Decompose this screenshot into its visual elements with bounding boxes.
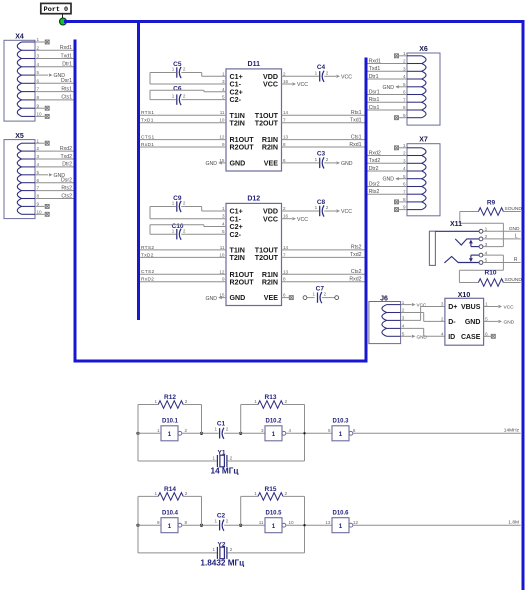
svg-text:13: 13 [283, 135, 289, 140]
wire RTS1 (bus to D11) [140, 114, 226, 116]
svg-text:6: 6 [353, 428, 356, 433]
node junction D2 (R15/Y2 tap) [303, 524, 305, 526]
svg-text:9: 9 [37, 202, 40, 207]
node junction C2n [239, 524, 242, 527]
svg-text:RxD1: RxD1 [141, 142, 154, 148]
svg-text:4: 4 [37, 162, 40, 167]
svg-text:C3: C3 [317, 151, 326, 158]
svg-text:4: 4 [441, 331, 444, 336]
connector X10 body [441, 292, 488, 345]
svg-text:1: 1 [172, 94, 175, 99]
ground GND arrow (D12 pin 15) [205, 296, 226, 302]
node junction C1n [239, 432, 242, 435]
wire X6 pin 3 net Txd1 [368, 70, 408, 72]
svg-text:2: 2 [183, 94, 186, 99]
svg-text:2: 2 [402, 308, 405, 313]
svg-text:1: 1 [315, 205, 318, 210]
wire X4 pin 6 net Dsr1 [35, 82, 74, 84]
svg-text:R15: R15 [265, 486, 277, 493]
svg-text:16: 16 [283, 214, 289, 219]
svg-text:GND: GND [54, 73, 66, 79]
svg-text:GND: GND [230, 294, 246, 302]
capacitor C1 [215, 420, 229, 439]
svg-text:13: 13 [283, 269, 289, 274]
svg-text:5: 5 [403, 174, 406, 179]
svg-text:2: 2 [403, 151, 406, 156]
wire X5 pin 6 net Dsr2 [35, 182, 74, 184]
wire X4 pin 4 net Dtr1 [35, 66, 74, 68]
svg-text:2: 2 [226, 427, 229, 432]
wire osc2 node A to D10.4 input [137, 524, 161, 526]
wire RxD2 (bus to D12) [140, 281, 226, 283]
bus wire: top horizontal [64, 20, 523, 23]
svg-text:3: 3 [403, 158, 406, 163]
svg-text:7: 7 [37, 87, 40, 92]
wire RTS2 (bus to D12) [140, 249, 226, 251]
svg-text:C4: C4 [317, 64, 326, 71]
svg-text:2: 2 [441, 316, 444, 321]
X11 pin circles [479, 229, 483, 264]
wire X10 VBUS to VCC [484, 306, 498, 308]
svg-text:1: 1 [485, 302, 488, 307]
svg-text:CTS1: CTS1 [141, 135, 154, 141]
no-connect X6 pin 9 [395, 116, 408, 120]
svg-text:GND: GND [205, 161, 217, 167]
wire X10 GND pin [484, 320, 498, 322]
wire TxD2 (bus to D12) [140, 256, 226, 258]
wire D11 VDD to C4 [282, 75, 320, 77]
crystal Y2 [138, 525, 305, 559]
X11 tip contact (L) [455, 239, 479, 245]
X11 sleeve wire to pin 1 [435, 230, 479, 232]
wire X6 pin 4 net Dtr1 [368, 78, 408, 80]
svg-text:C1: C1 [217, 420, 226, 427]
wire J6 pin 3 to X10 D+ [401, 307, 445, 321]
no-connect X5 pin 1 [35, 141, 49, 145]
svg-text:1: 1 [168, 431, 172, 438]
wire TxD1 (bus to D11) [140, 122, 226, 124]
wire C6 to D11 C2+ (pin 4) [150, 90, 226, 99]
svg-text:1: 1 [172, 67, 175, 72]
wire Cts1 (D11 to middle bus) [282, 139, 365, 141]
wire Rxd1 (D11 to middle bus) [282, 146, 365, 148]
X11 tip switch arrow (pin 3) [469, 240, 479, 247]
svg-text:C2-: C2- [230, 96, 242, 104]
svg-text:D11: D11 [248, 61, 261, 68]
svg-text:8: 8 [403, 197, 406, 202]
wire X7 pin 3 net Txd2 [368, 162, 408, 164]
wire X6 pin 8 net Cts1 [368, 109, 408, 111]
svg-text:12: 12 [353, 520, 359, 525]
ground GND arrow (X10) [498, 320, 514, 326]
svg-text:5: 5 [37, 170, 40, 175]
svg-text:GND: GND [382, 85, 394, 91]
wire X4 pin 3 net Txd1 [35, 58, 74, 60]
wire C5 to D11 C1+ (pin 1) [181, 73, 226, 77]
svg-text:16: 16 [283, 79, 289, 84]
connector X4 [4, 34, 42, 122]
wire X5 pin 7 net Rts2 [35, 190, 74, 192]
svg-text:ID: ID [448, 334, 455, 341]
no-connect X7 pin 9 [395, 208, 408, 212]
svg-text:2: 2 [37, 45, 40, 50]
svg-text:Rts1: Rts1 [61, 86, 72, 92]
wire X4 pin 5 to GND [35, 74, 48, 76]
svg-text:C1-: C1- [230, 215, 242, 223]
inverter D10.4 [157, 511, 188, 533]
ground GND arrow (D11 pin 15) [205, 161, 226, 167]
svg-text:12: 12 [219, 269, 225, 274]
svg-text:1: 1 [168, 523, 172, 530]
svg-text:2: 2 [230, 547, 233, 552]
wire C1 to D10.2 input [224, 432, 265, 434]
svg-text:6: 6 [403, 90, 406, 95]
wire Rxd2 (D12 to middle bus) [282, 281, 365, 283]
crystal Y1 [138, 433, 305, 467]
wire X6 pin 2 net Rxd1 [368, 63, 408, 65]
svg-text:VCC: VCC [504, 305, 515, 311]
svg-text:7: 7 [403, 189, 406, 194]
svg-text:9: 9 [403, 113, 406, 118]
svg-text:C2-: C2- [230, 231, 242, 239]
svg-text:1: 1 [272, 431, 276, 438]
op-amp/IC D11 body [219, 61, 288, 171]
svg-text:3: 3 [37, 54, 40, 59]
wire D11 VEE to C3 [282, 162, 320, 164]
svg-text:Cts2: Cts2 [61, 193, 72, 199]
svg-text:T2IN: T2IN [230, 254, 245, 262]
svg-text:1: 1 [157, 428, 160, 433]
wire X4 pin 2 net Rxd1 [35, 49, 74, 51]
svg-text:VBUS: VBUS [461, 304, 481, 311]
svg-text:10: 10 [219, 118, 225, 123]
svg-text:9: 9 [157, 520, 160, 525]
svg-text:1: 1 [312, 292, 315, 297]
node junction B2 [200, 524, 203, 527]
svg-text:VCC: VCC [341, 75, 352, 81]
svg-text:GND: GND [54, 173, 66, 179]
svg-text:6: 6 [283, 293, 286, 298]
power VCC arrow (C8) [324, 209, 352, 215]
capacitor C8 [315, 199, 329, 217]
no-connect X7 pin 8 [395, 200, 408, 204]
ground GND arrow (X4 pin 5) [49, 73, 65, 79]
wire Txd1 (D11 to middle bus) [282, 122, 365, 124]
svg-text:X5: X5 [15, 133, 24, 140]
no-connect X4 pin 10 [35, 114, 49, 118]
svg-text:7: 7 [283, 118, 286, 123]
svg-text:4: 4 [289, 428, 292, 433]
svg-text:6: 6 [403, 182, 406, 187]
no-connect X5 pin 9 [35, 204, 49, 208]
svg-text:11: 11 [220, 245, 225, 250]
svg-text:1: 1 [212, 455, 215, 460]
capacitor C2 [215, 512, 229, 531]
svg-text:1: 1 [403, 143, 406, 148]
svg-text:2: 2 [326, 157, 329, 162]
wire C9 to D12 C1+ (pin 1) [181, 207, 226, 212]
svg-text:CASE: CASE [461, 334, 481, 341]
svg-text:Cts1: Cts1 [369, 105, 380, 111]
svg-text:1: 1 [403, 51, 406, 56]
X11 ring switch arrow (pin 4) [469, 255, 479, 262]
wire X6 pin 6 net Dsr1 [368, 94, 408, 96]
svg-text:D-: D- [448, 319, 456, 326]
svg-text:14: 14 [283, 245, 289, 250]
svg-text:5: 5 [402, 332, 405, 337]
svg-text:1: 1 [212, 547, 215, 552]
no-connect X7 pin 1 [395, 146, 408, 150]
svg-text:Txd1: Txd1 [350, 118, 362, 124]
capacitor C4 [315, 64, 329, 82]
svg-text:10: 10 [219, 252, 225, 257]
svg-text:14 МГц: 14 МГц [211, 467, 239, 476]
resistor R13 [241, 394, 305, 461]
svg-text:1: 1 [339, 431, 343, 438]
no-connect D12 VEE pin 6 [282, 296, 294, 300]
svg-text:Rxd1: Rxd1 [60, 45, 72, 51]
bus wire: inner-left vertical [137, 22, 140, 321]
svg-text:SOUND: SOUND [505, 206, 523, 212]
svg-text:D12: D12 [247, 195, 260, 202]
ground GND arrow (J6 pin 5) [412, 334, 427, 339]
svg-text:R10: R10 [485, 270, 497, 277]
wire C5 to D11 C1- (pin 3) [150, 73, 226, 85]
svg-text:C1-: C1- [230, 81, 242, 89]
svg-text:GND: GND [509, 226, 520, 232]
bus wire: bottom horizontal [74, 360, 367, 363]
wire X7 pin 4 net Dtr2 [368, 170, 408, 172]
svg-text:1: 1 [254, 399, 257, 404]
svg-text:1: 1 [222, 71, 225, 76]
svg-text:5: 5 [222, 95, 225, 100]
svg-text:Port 0: Port 0 [44, 6, 68, 14]
svg-text:13: 13 [325, 520, 331, 525]
svg-text:1.8432 МГц: 1.8432 МГц [200, 559, 244, 568]
svg-text:7: 7 [283, 252, 286, 257]
svg-text:X7: X7 [419, 137, 428, 144]
wire C10 to D12 C2+ (pin 4) [150, 225, 226, 235]
svg-text:8: 8 [37, 95, 40, 100]
svg-text:D10.6: D10.6 [332, 511, 349, 517]
svg-text:2: 2 [183, 67, 186, 72]
svg-text:8: 8 [283, 142, 286, 147]
svg-text:1: 1 [37, 138, 40, 143]
svg-text:2: 2 [230, 455, 233, 460]
wire C10 to D12 C2- (pin 5) [181, 233, 226, 235]
bus wire: middle vertical [365, 58, 368, 363]
svg-text:2: 2 [285, 399, 288, 404]
no-connect X6 pin 1 [395, 54, 408, 58]
power VCC arrow (J6 pin 1) [412, 303, 427, 308]
wire J6 pin 1 to VCC [401, 304, 412, 306]
svg-text:3: 3 [402, 316, 405, 321]
svg-text:TxD2: TxD2 [141, 252, 154, 258]
svg-text:R13: R13 [265, 394, 277, 401]
no-connect X10 CASE pin 6 [484, 334, 496, 338]
svg-text:6: 6 [37, 178, 40, 183]
svg-text:Cts1: Cts1 [351, 134, 362, 140]
svg-text:3: 3 [441, 302, 444, 307]
svg-text:T2OUT: T2OUT [255, 119, 279, 127]
node junction B1 [200, 432, 203, 435]
svg-text:T2OUT: T2OUT [255, 254, 279, 262]
svg-text:4: 4 [403, 74, 406, 79]
ground GND arrow (X7 pin 5) [382, 177, 407, 183]
op-amp/IC D12 body [219, 195, 288, 305]
X11 pin numbers [485, 227, 488, 264]
svg-text:4: 4 [403, 166, 406, 171]
connector J6 [369, 295, 405, 343]
inverter D10.3 [328, 419, 356, 441]
svg-text:Rxd2: Rxd2 [60, 146, 72, 152]
svg-text:D10.3: D10.3 [332, 419, 349, 425]
svg-text:2: 2 [183, 201, 186, 206]
svg-text:1: 1 [37, 37, 40, 42]
svg-text:RTS2: RTS2 [141, 245, 154, 251]
svg-text:14: 14 [283, 110, 289, 115]
svg-text:L: L [515, 233, 518, 239]
resistor R9 [460, 200, 521, 216]
svg-text:VCC: VCC [297, 217, 308, 223]
resistor R15 [241, 486, 305, 553]
svg-text:R2OUT: R2OUT [230, 144, 255, 152]
resistor R10 [478, 270, 520, 287]
svg-text:Dtr2: Dtr2 [62, 162, 72, 168]
svg-text:GND: GND [465, 319, 481, 326]
svg-text:Rts1: Rts1 [351, 110, 362, 116]
power VCC arrow (D11 pin 16) [282, 82, 309, 88]
wire X7 pin 7 net Rts2 [368, 193, 408, 195]
inverter D10.5 [259, 511, 294, 533]
svg-text:4: 4 [222, 87, 225, 92]
svg-text:1: 1 [215, 427, 218, 432]
svg-text:VCC: VCC [263, 81, 278, 89]
wire X11 pin 2 to bus (L) [483, 238, 521, 240]
no-connect X5 pin 10 [35, 212, 49, 216]
svg-text:1: 1 [172, 228, 175, 233]
svg-text:2: 2 [185, 428, 188, 433]
svg-text:Rts2: Rts2 [369, 189, 380, 195]
svg-text:RxD2: RxD2 [141, 277, 154, 283]
svg-text:8: 8 [403, 105, 406, 110]
svg-text:Txd2: Txd2 [369, 158, 381, 164]
svg-text:1: 1 [315, 70, 318, 75]
wire CTS1 (bus to D11) [140, 139, 226, 141]
node junction A2 [136, 524, 139, 527]
power VCC arrow (D12 pin 16) [282, 217, 309, 223]
svg-text:1: 1 [315, 157, 318, 162]
svg-text:3: 3 [222, 214, 225, 219]
bus wire: right vertical [522, 20, 525, 590]
svg-text:Rxd1: Rxd1 [349, 142, 361, 148]
inverter D10.6 [325, 511, 358, 533]
svg-text:D10.2: D10.2 [265, 419, 282, 425]
svg-text:1: 1 [172, 201, 175, 206]
wire C2 to D10.5 input [224, 524, 265, 526]
svg-text:1: 1 [272, 523, 276, 530]
svg-text:9: 9 [222, 277, 225, 282]
svg-text:1: 1 [215, 519, 218, 524]
svg-text:Dtr1: Dtr1 [369, 74, 379, 80]
svg-text:4: 4 [37, 62, 40, 67]
svg-text:Rts2: Rts2 [351, 245, 362, 251]
svg-text:2: 2 [185, 491, 188, 496]
wire X5 pin 4 net Dtr2 [35, 166, 74, 168]
svg-text:VEE: VEE [264, 294, 278, 302]
svg-text:GND: GND [230, 160, 246, 168]
svg-text:GND: GND [382, 177, 394, 183]
svg-text:1: 1 [154, 491, 157, 496]
svg-text:VCC: VCC [341, 209, 352, 215]
connector X5 [4, 133, 42, 219]
svg-text:8: 8 [283, 277, 286, 282]
connector X6 [403, 46, 440, 125]
svg-text:C2: C2 [217, 512, 226, 519]
svg-text:SOUND: SOUND [505, 277, 523, 283]
wire D10.6 output to bus (1.8M) [353, 524, 521, 526]
wire X5 pin 2 net Rxd2 [35, 150, 74, 152]
svg-text:2: 2 [324, 292, 327, 297]
svg-text:TxD1: TxD1 [141, 118, 154, 124]
svg-text:Txd1: Txd1 [369, 66, 381, 72]
svg-text:Txd1: Txd1 [60, 53, 72, 59]
wire X11 pin 5 to bus (R) [483, 262, 521, 264]
node junction A1 [136, 432, 139, 435]
svg-text:Txd2: Txd2 [350, 252, 362, 258]
svg-text:C2+: C2+ [230, 88, 243, 96]
svg-text:10: 10 [289, 520, 295, 525]
svg-text:Dtr2: Dtr2 [369, 166, 379, 172]
wire D10.4 output to C2 [182, 524, 219, 526]
svg-text:3: 3 [37, 154, 40, 159]
connector X7 [403, 137, 440, 216]
svg-text:Rts1: Rts1 [369, 97, 380, 103]
svg-text:10: 10 [37, 209, 43, 214]
svg-text:R9: R9 [487, 200, 496, 207]
svg-text:1.8M: 1.8M [508, 520, 519, 526]
wire C9 to D12 C1- (pin 3) [150, 207, 226, 219]
svg-text:4: 4 [222, 222, 225, 227]
wire Rts1 (D11 to middle bus) [282, 114, 365, 116]
capacitor C3 [315, 151, 329, 169]
svg-text:9: 9 [403, 205, 406, 210]
svg-text:1: 1 [254, 491, 257, 496]
svg-text:D10.5: D10.5 [265, 511, 282, 517]
svg-text:D10.1: D10.1 [162, 419, 179, 425]
svg-text:1: 1 [154, 399, 157, 404]
node junction D1 (R13/Y1 tap) [303, 432, 305, 434]
svg-text:5: 5 [403, 82, 406, 87]
inverter D10.1 [157, 419, 188, 441]
svg-text:X11: X11 [450, 221, 462, 228]
wire D10.3 output to bus (14MHz) [353, 432, 521, 434]
svg-text:6: 6 [283, 158, 286, 163]
svg-text:D+: D+ [448, 304, 457, 311]
svg-text:X4: X4 [15, 34, 24, 41]
svg-text:CTS2: CTS2 [141, 269, 154, 275]
svg-text:Dsr1: Dsr1 [369, 89, 380, 95]
wire CTS2 (bus to D12) [140, 273, 226, 275]
svg-text:3: 3 [222, 79, 225, 84]
svg-text:5: 5 [485, 316, 488, 321]
ground GND arrow (X6 pin 5) [382, 85, 407, 91]
svg-text:Cts2: Cts2 [351, 269, 362, 275]
wire X7 pin 2 net Rxd2 [368, 155, 408, 157]
svg-text:2: 2 [283, 71, 286, 76]
X11 ring contact (R) [444, 257, 479, 263]
svg-text:R2IN: R2IN [262, 278, 278, 286]
